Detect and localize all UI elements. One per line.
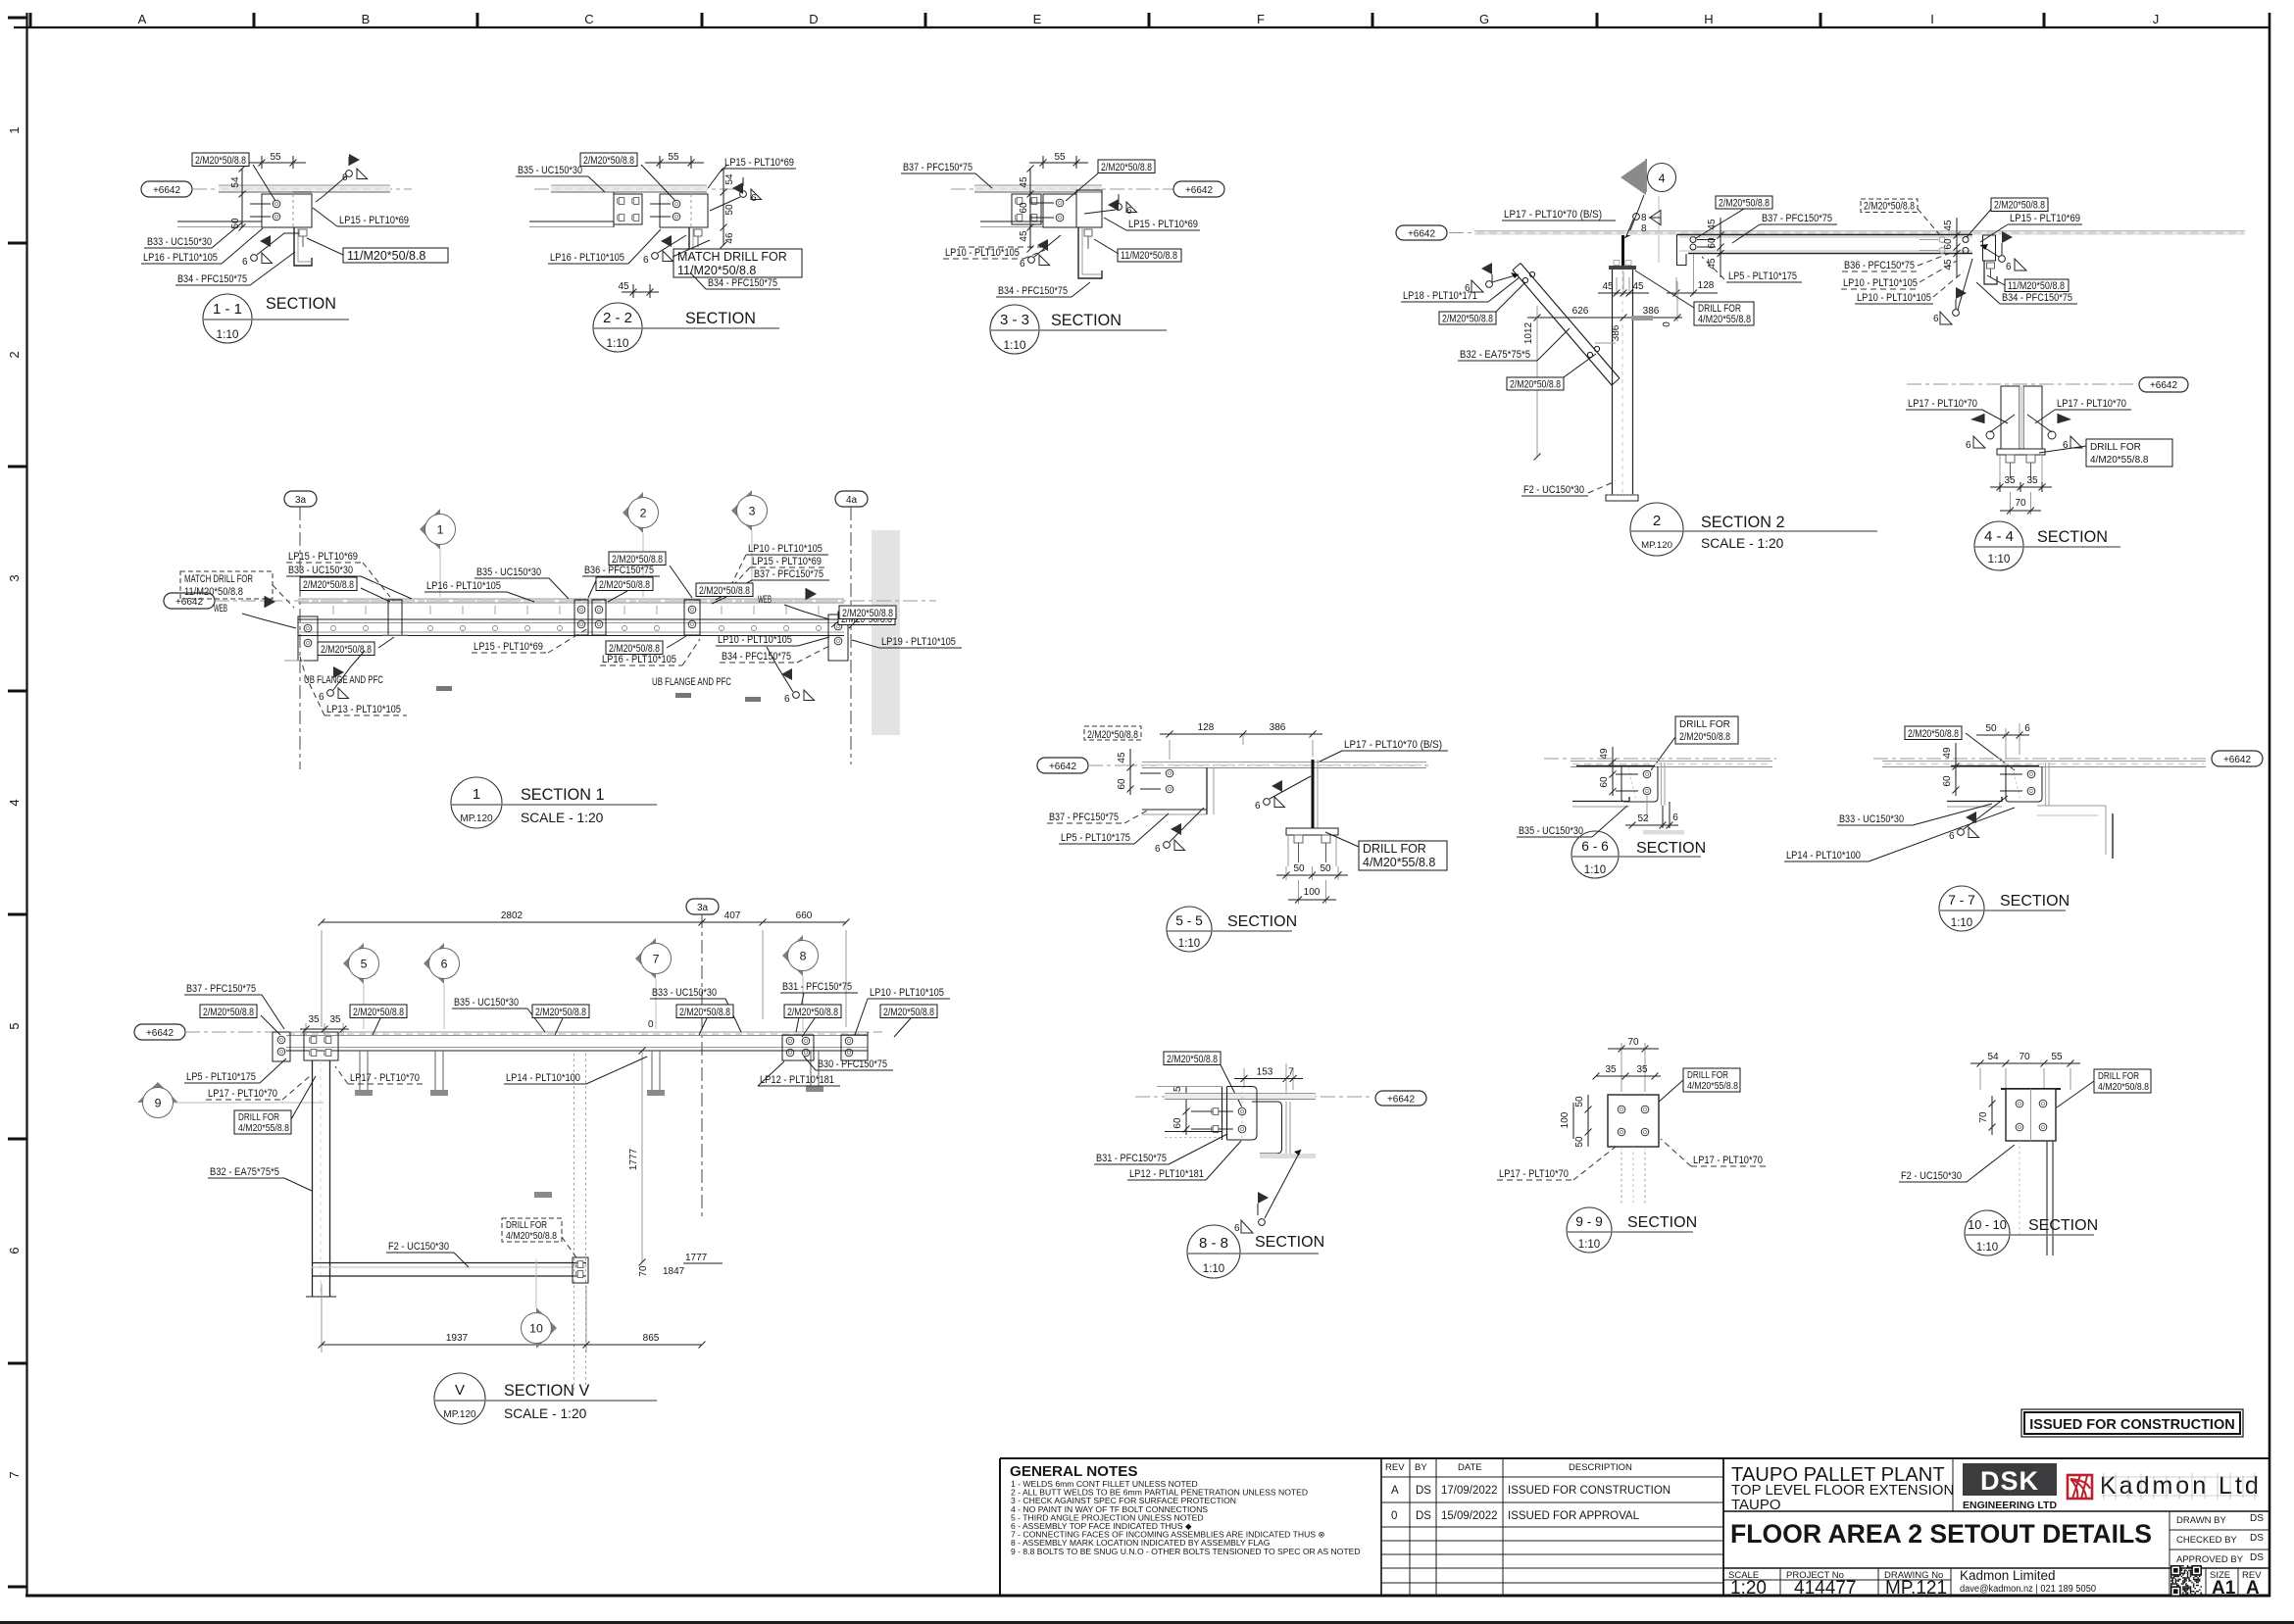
svg-text:SCALE - 1:20: SCALE - 1:20 bbox=[1701, 536, 1784, 551]
svg-text:4: 4 bbox=[1659, 172, 1666, 185]
svg-text:SECTION: SECTION bbox=[1627, 1214, 1697, 1231]
svg-text:B31 - PFC150*75: B31 - PFC150*75 bbox=[782, 981, 852, 993]
row numbers bbox=[7, 126, 22, 1478]
svg-text:386: 386 bbox=[1643, 306, 1660, 317]
centerline + oval right bbox=[1873, 758, 2209, 760]
svg-text:0: 0 bbox=[1662, 321, 1672, 327]
svg-text:SECTION 2: SECTION 2 bbox=[1701, 514, 1784, 531]
grid oval 4a bbox=[835, 491, 868, 507]
dims 45/60/45 left bbox=[1720, 218, 1721, 277]
UC web edge-on bbox=[2045, 763, 2047, 806]
label 2/M20 upper mid bbox=[609, 552, 666, 566]
scale / project / drawing row bbox=[1723, 1568, 2262, 1599]
svg-text:SECTION: SECTION bbox=[2037, 528, 2108, 546]
section marker 7-7 bbox=[1939, 886, 1984, 931]
main beam lines bbox=[286, 1031, 868, 1033]
svg-text:2/M20*50/8.8: 2/M20*50/8.8 bbox=[195, 155, 246, 167]
svg-text:B33 - UC150*30: B33 - UC150*30 bbox=[652, 987, 717, 999]
slab / B35 top bbox=[551, 185, 707, 192]
svg-text:SECTION: SECTION bbox=[266, 295, 336, 313]
svg-text:MP.120: MP.120 bbox=[460, 813, 493, 824]
svg-text:49: 49 bbox=[1942, 747, 1953, 759]
label 2/M20 right mid bbox=[696, 583, 753, 597]
svg-text:1:10: 1:10 bbox=[1988, 552, 2011, 566]
level oval +6642 bbox=[1396, 225, 1447, 240]
left end bracket bbox=[298, 616, 318, 661]
label 2/M20 (5) bbox=[784, 1005, 841, 1018]
svg-text:LP16 - PLT10*105: LP16 - PLT10*105 bbox=[143, 252, 218, 264]
svg-text:APPROVED BY: APPROVED BY bbox=[2176, 1554, 2244, 1565]
svg-text:11/M20*50/8.8: 11/M20*50/8.8 bbox=[677, 264, 756, 277]
label 2/M20 far right bbox=[838, 612, 895, 625]
svg-text:45: 45 bbox=[1019, 230, 1029, 242]
svg-text:6: 6 bbox=[319, 692, 324, 703]
plate LP15 bbox=[1076, 190, 1102, 227]
svg-text:LP15 - PLT10*69: LP15 - PLT10*69 bbox=[288, 551, 358, 563]
beam left lines bbox=[1165, 1131, 1222, 1133]
svg-text:DRILL FOR: DRILL FOR bbox=[238, 1112, 279, 1123]
svg-text:70: 70 bbox=[2015, 498, 2026, 509]
svg-text:15/09/2022: 15/09/2022 bbox=[1441, 1510, 1498, 1522]
svg-text:F2 - UC150*30: F2 - UC150*30 bbox=[388, 1241, 449, 1253]
svg-text:A: A bbox=[1391, 1485, 1399, 1497]
bracket plate bbox=[1576, 765, 1655, 767]
svg-text:35: 35 bbox=[2004, 475, 2016, 486]
svg-text:SCALE - 1:20: SCALE - 1:20 bbox=[504, 1406, 587, 1421]
hidden mid bolts bbox=[1939, 237, 1945, 243]
svg-text:407: 407 bbox=[724, 910, 741, 921]
svg-text:DS: DS bbox=[1416, 1510, 1431, 1522]
weld symbols bbox=[1990, 415, 2015, 432]
dims 128/386 bbox=[1169, 740, 1171, 760]
base plate bbox=[1286, 828, 1338, 835]
svg-text:54: 54 bbox=[724, 173, 735, 185]
main title area bbox=[1723, 1458, 2270, 1599]
8/8 butt weld symbol bbox=[1633, 214, 1640, 221]
svg-text:128: 128 bbox=[1698, 280, 1715, 291]
svg-text:LP13 - PLT10*105: LP13 - PLT10*105 bbox=[326, 704, 401, 715]
main bracket bbox=[660, 194, 708, 227]
column F2 below bbox=[1612, 270, 1614, 495]
svg-text:LP15 - PLT10*69: LP15 - PLT10*69 bbox=[724, 157, 794, 169]
dims 54/70/55 bbox=[1979, 1068, 1981, 1090]
PFC channel below bbox=[689, 227, 708, 271]
drill for box bbox=[1675, 716, 1738, 744]
splice bracket A bbox=[388, 600, 402, 635]
svg-text:B34 - PFC150*75: B34 - PFC150*75 bbox=[2002, 292, 2072, 304]
svg-text:DRILL FOR: DRILL FOR bbox=[506, 1220, 547, 1231]
right lower lines bbox=[2037, 805, 2106, 807]
B35 beam lines bbox=[529, 221, 614, 222]
svg-text:1777: 1777 bbox=[685, 1253, 708, 1263]
dim 70 bbox=[2010, 492, 2012, 515]
dims 45/60/45 right bbox=[1956, 218, 1958, 277]
B37 beam lines left bbox=[980, 221, 1043, 222]
svg-text:2/M20*50/8.8: 2/M20*50/8.8 bbox=[787, 1007, 838, 1018]
svg-text:2/M20*50/8.8: 2/M20*50/8.8 bbox=[1719, 198, 1770, 210]
label 11/M20 bbox=[343, 248, 448, 263]
label 2/M20 (6) bbox=[880, 1005, 937, 1018]
svg-text:3: 3 bbox=[749, 505, 756, 518]
dim 45 bbox=[632, 284, 634, 298]
svg-text:2: 2 bbox=[1653, 513, 1661, 529]
svg-text:100: 100 bbox=[1304, 887, 1321, 898]
svg-text:DESCRIPTION: DESCRIPTION bbox=[1569, 1462, 1632, 1473]
dim 128 bbox=[1675, 277, 1677, 295]
svg-text:LP16 - PLT10*105: LP16 - PLT10*105 bbox=[602, 654, 676, 665]
svg-text:LP5 - PLT10*175: LP5 - PLT10*175 bbox=[1061, 832, 1130, 844]
svg-text:1:10: 1:10 bbox=[607, 336, 629, 350]
svg-text:D: D bbox=[809, 12, 818, 26]
svg-text:LP15 - PLT10*69: LP15 - PLT10*69 bbox=[752, 556, 822, 567]
svg-text:2/M20*50/8.8: 2/M20*50/8.8 bbox=[699, 585, 750, 597]
grid oval 3a bbox=[284, 491, 317, 507]
svg-text:60: 60 bbox=[1117, 778, 1127, 790]
svg-text:ENGINEERING LTD: ENGINEERING LTD bbox=[1963, 1500, 2057, 1511]
svg-text:6: 6 bbox=[1966, 440, 1971, 451]
svg-text:H: H bbox=[1704, 12, 1713, 26]
B33 bottom flange lines bbox=[177, 221, 262, 222]
label MATCH DRILL dashed bbox=[180, 571, 273, 599]
svg-text:45: 45 bbox=[1019, 176, 1029, 188]
top dimension row 2802/407/660 bbox=[321, 930, 323, 1027]
right end bracket bbox=[828, 615, 848, 661]
PFC channel below bbox=[1078, 227, 1102, 278]
svg-text:SCALE - 1:20: SCALE - 1:20 bbox=[521, 811, 604, 825]
svg-text:2/M20*50/8.8: 2/M20*50/8.8 bbox=[599, 579, 650, 591]
svg-text:LP10 - PLT10*105: LP10 - PLT10*105 bbox=[718, 634, 792, 646]
svg-text:LP12 - PLT10*181: LP12 - PLT10*181 bbox=[760, 1074, 834, 1086]
label 11/M20 box bbox=[2005, 279, 2069, 292]
splice bracket C bbox=[684, 600, 700, 635]
svg-text:LP10 - PLT10*105: LP10 - PLT10*105 bbox=[945, 247, 1020, 259]
svg-text:A1: A1 bbox=[2212, 1578, 2236, 1599]
centerline bbox=[215, 600, 936, 602]
twin plates LP17 bbox=[2001, 386, 2020, 449]
svg-text:5: 5 bbox=[7, 1022, 22, 1029]
svg-text:2/M20*50/8.8: 2/M20*50/8.8 bbox=[612, 554, 663, 566]
section cut flag 7 bbox=[635, 938, 656, 979]
svg-text:GENERAL NOTES: GENERAL NOTES bbox=[1010, 1463, 1138, 1480]
section cut flag 3 bbox=[731, 490, 752, 531]
svg-text:LP17 - PLT10*70: LP17 - PLT10*70 bbox=[2057, 398, 2126, 410]
dim 1012 vertical bbox=[1536, 318, 1538, 457]
svg-text:2/M20*50/8.8: 2/M20*50/8.8 bbox=[1101, 162, 1152, 173]
drill for box bbox=[1694, 302, 1754, 325]
weld lower bbox=[652, 251, 673, 262]
weld right bbox=[742, 177, 744, 186]
svg-text:865: 865 bbox=[643, 1333, 660, 1344]
svg-text:2/M20*50/8.8: 2/M20*50/8.8 bbox=[679, 1007, 730, 1018]
svg-text:2802: 2802 bbox=[501, 910, 524, 921]
ruler ticks top bbox=[30, 13, 2044, 27]
svg-text:60: 60 bbox=[1019, 202, 1029, 214]
svg-text:+6642: +6642 bbox=[146, 1028, 175, 1039]
svg-text:153: 153 bbox=[1257, 1067, 1273, 1078]
svg-text:0: 0 bbox=[1391, 1510, 1397, 1522]
svg-text:1012: 1012 bbox=[1523, 321, 1534, 344]
svg-text:LP5 - PLT10*175: LP5 - PLT10*175 bbox=[1728, 271, 1797, 282]
svg-text:B35 - UC150*30: B35 - UC150*30 bbox=[476, 566, 541, 578]
svg-text:CHECKED BY: CHECKED BY bbox=[2176, 1535, 2237, 1546]
F2 bottom beam bbox=[312, 1262, 586, 1264]
svg-text:LP10 - PLT10*105: LP10 - PLT10*105 bbox=[748, 543, 823, 555]
svg-text:LP14 - PLT10*100: LP14 - PLT10*100 bbox=[506, 1072, 580, 1084]
dims 50/100/50 bbox=[1587, 1095, 1589, 1147]
svg-text:11/M20*50/8.8: 11/M20*50/8.8 bbox=[184, 586, 243, 598]
lower beam bbox=[1572, 797, 1629, 802]
svg-text:4/M20*55/8.8: 4/M20*55/8.8 bbox=[238, 1123, 289, 1134]
splice bracket B (double) bbox=[574, 600, 588, 635]
svg-text:1: 1 bbox=[7, 126, 22, 133]
label 2/M20 mid bbox=[596, 577, 653, 591]
label 2/M20 grey band bbox=[839, 606, 896, 619]
svg-text:1777: 1777 bbox=[628, 1148, 639, 1170]
svg-text:LP15 - PLT10*69: LP15 - PLT10*69 bbox=[2010, 213, 2080, 224]
svg-text:1: 1 bbox=[437, 523, 444, 537]
svg-text:2: 2 bbox=[7, 351, 22, 358]
weld mid bbox=[1264, 797, 1285, 808]
svg-text:+6642: +6642 bbox=[1408, 229, 1436, 240]
svg-text:2/M20*50/8.8: 2/M20*50/8.8 bbox=[1864, 201, 1915, 213]
svg-text:4/M20*55/8.8: 4/M20*55/8.8 bbox=[1687, 1081, 1738, 1092]
beam end bolts left bbox=[1690, 237, 1696, 243]
svg-text:70: 70 bbox=[1627, 1037, 1639, 1048]
drill for box bbox=[2094, 1069, 2151, 1093]
issued for construction stamp bbox=[2021, 1409, 2243, 1437]
svg-text:55: 55 bbox=[2051, 1052, 2063, 1062]
svg-text:B37 - PFC150*75: B37 - PFC150*75 bbox=[754, 568, 823, 580]
svg-text:WEB: WEB bbox=[758, 594, 772, 606]
svg-text:G: G bbox=[1479, 12, 1489, 26]
label 2/M20 solid box right bbox=[1991, 198, 2048, 212]
stud bolts along beam bbox=[331, 626, 822, 631]
svg-text:50: 50 bbox=[1320, 863, 1331, 874]
svg-text:35: 35 bbox=[1636, 1064, 1648, 1075]
grey mark под dim bbox=[1631, 316, 1653, 320]
label 2/M20 bottom left bbox=[318, 642, 374, 656]
svg-text:ISSUED FOR APPROVAL: ISSUED FOR APPROVAL bbox=[1508, 1510, 1640, 1522]
centerline bbox=[192, 188, 412, 190]
centerline bbox=[951, 188, 1173, 190]
svg-text:3 - 3: 3 - 3 bbox=[1000, 312, 1029, 328]
svg-text:SECTION: SECTION bbox=[2000, 893, 2070, 910]
svg-text:35: 35 bbox=[308, 1014, 320, 1025]
beam B37 bbox=[1677, 234, 1973, 236]
svg-text:1: 1 bbox=[473, 786, 480, 803]
svg-text:dave@kadmon.nz | 021 189 5050: dave@kadmon.nz | 021 189 5050 bbox=[1960, 1584, 2096, 1595]
section cut flag 10 bbox=[536, 1307, 557, 1349]
svg-text:+6642: +6642 bbox=[2223, 755, 2252, 765]
label 2/M20 bbox=[1098, 160, 1155, 173]
revision table bbox=[1381, 1458, 1723, 1596]
svg-text:B33 - UC150*30: B33 - UC150*30 bbox=[1839, 813, 1904, 825]
F2 right connection bbox=[573, 1257, 588, 1283]
bottom dims 1937 / 865 bbox=[321, 1284, 323, 1353]
svg-text:F2 - UC150*30: F2 - UC150*30 bbox=[1901, 1170, 1962, 1182]
Kadmon logo mark bbox=[2068, 1475, 2092, 1499]
QR code bbox=[2170, 1565, 2202, 1597]
svg-text:50: 50 bbox=[1293, 863, 1305, 874]
dims 49/60 bbox=[1955, 743, 1957, 796]
svg-text:1:10: 1:10 bbox=[1578, 1239, 1600, 1251]
drill for box bbox=[2086, 439, 2172, 467]
svg-text:55: 55 bbox=[668, 152, 679, 163]
svg-text:1 - 1: 1 - 1 bbox=[213, 301, 242, 318]
svg-text:46: 46 bbox=[724, 232, 735, 244]
level oval bbox=[1037, 758, 1088, 773]
dashed bolt label bbox=[1084, 726, 1141, 740]
svg-text:55: 55 bbox=[1054, 152, 1066, 163]
svg-text:LP17 - PLT10*70 (B/S): LP17 - PLT10*70 (B/S) bbox=[1344, 739, 1442, 751]
svg-text:8 - 8: 8 - 8 bbox=[1199, 1235, 1228, 1252]
plate bbox=[2001, 1088, 2061, 1090]
section cut flag 4 bbox=[1645, 159, 1647, 192]
svg-text:52: 52 bbox=[1637, 813, 1649, 824]
svg-text:Kadmon Limited: Kadmon Limited bbox=[1960, 1568, 2056, 1583]
weld lower bbox=[1028, 255, 1050, 266]
column top splice bbox=[304, 1032, 338, 1060]
svg-text:5: 5 bbox=[361, 958, 368, 971]
section marker 6-6 bbox=[1571, 831, 1619, 878]
section 1 title bbox=[451, 777, 502, 828]
svg-text:2/M20*50/8.8: 2/M20*50/8.8 bbox=[1994, 200, 2045, 212]
svg-text:+6642: +6642 bbox=[2150, 380, 2178, 391]
svg-text:1:10: 1:10 bbox=[1178, 938, 1200, 950]
dim 54 / 50 bbox=[241, 169, 243, 227]
label 2/M20 bottom mid bbox=[606, 641, 663, 655]
svg-text:2/M20*50/8.8: 2/M20*50/8.8 bbox=[1167, 1054, 1218, 1065]
drill for box bbox=[234, 1110, 291, 1134]
dims 54/50/46 right side bbox=[723, 169, 724, 245]
svg-text:MATCH DRILL FOR: MATCH DRILL FOR bbox=[184, 573, 253, 585]
weld lower left bbox=[1164, 840, 1185, 851]
svg-text:660: 660 bbox=[796, 910, 813, 921]
svg-text:B33 - UC150*30: B33 - UC150*30 bbox=[147, 236, 212, 248]
centerline bbox=[1449, 232, 2245, 234]
slab bbox=[1142, 762, 1426, 763]
dims 50/6 top bbox=[2005, 728, 2007, 760]
svg-text:10 - 10: 10 - 10 bbox=[1968, 1217, 2007, 1232]
svg-text:B37 - PFC150*75: B37 - PFC150*75 bbox=[903, 162, 972, 173]
drawn/checked/approved table bbox=[2169, 1511, 2270, 1568]
svg-text:5 - 5: 5 - 5 bbox=[1175, 913, 1203, 928]
svg-text:1:10: 1:10 bbox=[1976, 1242, 1998, 1254]
svg-text:49: 49 bbox=[1599, 748, 1610, 760]
label 2/M20*50/8.8 bbox=[192, 153, 249, 167]
svg-text:2/M20*50/8.8: 2/M20*50/8.8 bbox=[1442, 314, 1493, 325]
anchor bolts bbox=[2006, 455, 2015, 463]
svg-text:6: 6 bbox=[643, 255, 649, 266]
svg-text:1:10: 1:10 bbox=[1584, 864, 1606, 876]
hidden plate dashes bbox=[959, 246, 1045, 248]
section cut flag 2 bbox=[623, 492, 643, 533]
section marker 4-4 bbox=[1974, 521, 2023, 570]
svg-text:DS: DS bbox=[2250, 1513, 2264, 1524]
svg-text:45: 45 bbox=[1632, 281, 1644, 292]
general notes box bbox=[1010, 1463, 1361, 1556]
beam left end step bbox=[1677, 235, 1687, 266]
svg-text:9 - 9: 9 - 9 bbox=[1575, 1214, 1603, 1229]
svg-text:6: 6 bbox=[2024, 723, 2030, 734]
bolt label bbox=[1164, 1052, 1221, 1065]
svg-text:7 - 7: 7 - 7 bbox=[1948, 893, 1975, 908]
section cut flag 1 bbox=[420, 509, 440, 550]
svg-text:4/M20*50/8.8: 4/M20*50/8.8 bbox=[506, 1231, 557, 1242]
right end bolts bbox=[1963, 237, 1969, 243]
label 2/M20 bbox=[300, 577, 357, 591]
section V title bbox=[434, 1373, 485, 1424]
svg-text:70: 70 bbox=[638, 1265, 649, 1277]
svg-text:6: 6 bbox=[784, 694, 790, 705]
svg-text:70: 70 bbox=[1978, 1111, 1989, 1123]
svg-text:WEB: WEB bbox=[214, 603, 227, 615]
svg-text:50: 50 bbox=[1574, 1136, 1585, 1148]
svg-text:2 - 2: 2 - 2 bbox=[603, 310, 632, 326]
svg-text:3a: 3a bbox=[697, 903, 709, 913]
svg-text:B37 - PFC150*75: B37 - PFC150*75 bbox=[186, 983, 256, 995]
section cut flag 5 bbox=[343, 943, 364, 984]
svg-text:SECTION 1: SECTION 1 bbox=[521, 786, 604, 804]
section marker 3-3 bbox=[990, 305, 1039, 354]
svg-text:+6642: +6642 bbox=[1049, 762, 1077, 772]
dim 45 45 at column bbox=[1616, 277, 1618, 295]
svg-text:V: V bbox=[455, 1382, 465, 1399]
svg-text:B: B bbox=[362, 12, 371, 26]
label 2/M20 dashed box bbox=[1861, 199, 1918, 213]
svg-text:B37 - PFC150*75: B37 - PFC150*75 bbox=[1762, 213, 1832, 224]
svg-text:DATE: DATE bbox=[1458, 1462, 1482, 1473]
svg-text:LP15 - PLT10*69: LP15 - PLT10*69 bbox=[1128, 219, 1198, 230]
right portion brackets bbox=[782, 1035, 814, 1060]
svg-text:SECTION: SECTION bbox=[1636, 840, 1706, 857]
level oval +6642 bbox=[134, 1024, 185, 1040]
svg-text:2/M20*50/8.8: 2/M20*50/8.8 bbox=[203, 1007, 254, 1018]
svg-text:7: 7 bbox=[1288, 1067, 1294, 1078]
plate LP17 edge-on bbox=[1621, 235, 1624, 266]
dims 49/60 bbox=[1612, 747, 1614, 796]
svg-text:6: 6 bbox=[441, 958, 448, 971]
svg-text:10: 10 bbox=[529, 1322, 543, 1336]
svg-text:414477: 414477 bbox=[1794, 1578, 1856, 1599]
svg-text:2/M20*50/8.8: 2/M20*50/8.8 bbox=[1908, 728, 1959, 740]
svg-text:LP5 - PLT10*175: LP5 - PLT10*175 bbox=[186, 1071, 256, 1083]
weld bbox=[1257, 1204, 1259, 1215]
svg-text:B36 - PFC150*75: B36 - PFC150*75 bbox=[1844, 260, 1915, 271]
hidden column dotted bbox=[573, 1054, 575, 1392]
bracket plate bbox=[1951, 765, 2039, 767]
svg-text:9 - 8.8 BOLTS TO BE SNUG U.N.O: 9 - 8.8 BOLTS TO BE SNUG U.N.O - OTHER B… bbox=[1011, 1547, 1361, 1556]
svg-text:F2 - UC150*30: F2 - UC150*30 bbox=[1523, 484, 1584, 496]
svg-text:LP19 - PLT10*105: LP19 - PLT10*105 bbox=[881, 636, 956, 648]
dim 70 left bbox=[1991, 1096, 1993, 1135]
svg-text:2/M20*50/8.8: 2/M20*50/8.8 bbox=[535, 1007, 586, 1018]
svg-text:54: 54 bbox=[1987, 1052, 1999, 1062]
svg-text:MP.120: MP.120 bbox=[1641, 540, 1672, 551]
svg-text:1937: 1937 bbox=[446, 1333, 469, 1344]
dims 45/60/45 bbox=[1029, 169, 1031, 249]
svg-text:LP17 - PLT10*70: LP17 - PLT10*70 bbox=[1693, 1155, 1763, 1166]
column below bbox=[2046, 1141, 2048, 1255]
slab bbox=[1165, 1094, 1316, 1100]
svg-text:0: 0 bbox=[648, 1019, 654, 1030]
slab band bbox=[1474, 231, 2245, 236]
svg-text:8: 8 bbox=[1641, 213, 1647, 223]
svg-text:386: 386 bbox=[1270, 722, 1286, 733]
section marker 10-10 bbox=[1965, 1210, 2010, 1255]
svg-text:B36 - PFC150*75: B36 - PFC150*75 bbox=[584, 565, 654, 576]
svg-text:4/M20*55/8.8: 4/M20*55/8.8 bbox=[2090, 455, 2149, 466]
